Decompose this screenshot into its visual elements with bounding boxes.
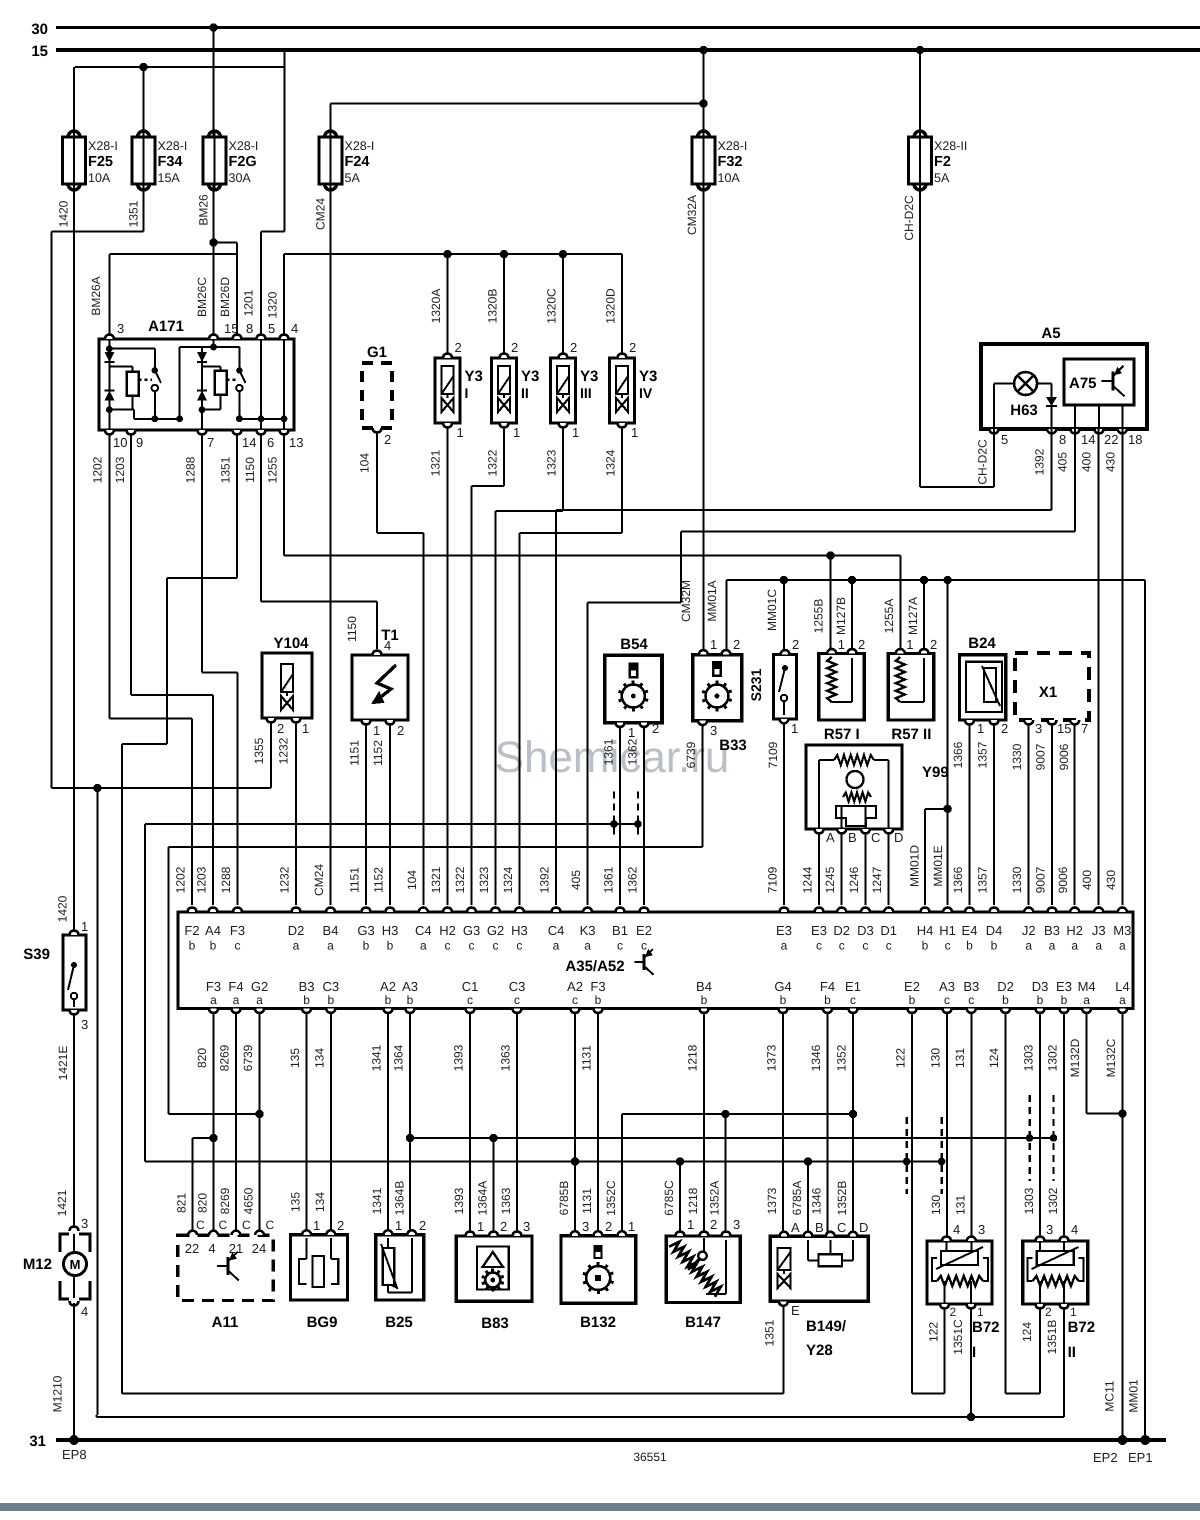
svg-text:B149/: B149/ [806, 1318, 847, 1335]
svg-text:Y99: Y99 [922, 764, 949, 781]
junction bus15/F32 [699, 46, 707, 54]
svg-text:a: a [210, 993, 217, 1007]
svg-text:b: b [387, 939, 394, 953]
svg-text:15: 15 [1057, 721, 1071, 736]
wire label 130 at B72I [929, 1195, 943, 1215]
svg-text:B83: B83 [481, 1315, 509, 1332]
svg-text:C: C [242, 1218, 251, 1232]
svg-text:b: b [1037, 993, 1044, 1007]
junction 1351/shield drop [93, 784, 101, 792]
wire 400 [1098, 429, 1100, 905]
wire M132C to EP2 [1122, 1013, 1124, 1441]
wire label 4650 at A11 [242, 1187, 256, 1214]
wire 1351B [1063, 1305, 1065, 1417]
svg-text:124: 124 [1020, 1322, 1034, 1342]
svg-text:6739: 6739 [241, 1044, 255, 1071]
svg-text:E: E [791, 1303, 800, 1318]
svg-text:I: I [465, 385, 469, 401]
svg-text:4: 4 [291, 321, 298, 336]
svg-text:B33: B33 [719, 737, 747, 754]
svg-text:1420: 1420 [56, 895, 70, 922]
wire 1362 [643, 727, 645, 905]
wire label M127B [834, 597, 848, 635]
svg-text:9006: 9006 [1056, 866, 1070, 893]
svg-text:EP8: EP8 [62, 1447, 87, 1462]
svg-text:C: C [219, 1218, 228, 1232]
svg-text:2: 2 [652, 721, 659, 736]
bus 31 label [29, 1433, 46, 1450]
wire label 1346 at B149 [810, 1187, 824, 1214]
junction BM26 y242.5 [209, 238, 217, 246]
svg-text:24: 24 [252, 1241, 266, 1256]
wire label 124 below B72II [1020, 1322, 1034, 1342]
wire 1232 [295, 722, 297, 905]
svg-text:1: 1 [710, 637, 717, 652]
svg-text:b: b [966, 939, 973, 953]
ECU bottom wire labels [195, 1038, 1118, 1077]
svg-text:1373: 1373 [765, 1187, 779, 1214]
svg-text:M3: M3 [1113, 923, 1131, 938]
svg-text:2: 2 [629, 340, 636, 355]
svg-text:8: 8 [1059, 432, 1066, 447]
svg-text:2: 2 [792, 637, 799, 652]
svg-text:G3: G3 [463, 923, 480, 938]
svg-text:2: 2 [858, 637, 865, 652]
svg-text:1421: 1421 [55, 1189, 69, 1216]
svg-text:B24: B24 [968, 635, 996, 652]
wire label 1150 at T1 [345, 616, 359, 642]
svg-text:131: 131 [953, 1195, 967, 1215]
svg-text:A: A [826, 830, 835, 845]
wire label 1351B below B72II [1045, 1320, 1059, 1355]
wire 134 [330, 1013, 332, 1233]
wire 1288 [202, 434, 238, 905]
svg-text:1303: 1303 [1022, 1187, 1036, 1214]
knock sensor BG9 [291, 1218, 348, 1331]
wire label 1320B [486, 289, 500, 324]
wire 1341 [387, 1013, 389, 1233]
svg-text:7: 7 [207, 435, 214, 450]
wire 821 branch [193, 1138, 214, 1232]
junction bus15/F2 [916, 46, 924, 54]
wire 1351 from A171 pin14 [122, 434, 237, 1394]
svg-text:C1: C1 [462, 979, 479, 994]
junction 1352 [849, 1110, 857, 1118]
fuse F34 15A [132, 130, 187, 191]
junction 1364/1364A [406, 1134, 414, 1142]
svg-text:G4: G4 [774, 979, 791, 994]
svg-text:c: c [945, 939, 951, 953]
svg-text:Y104: Y104 [273, 635, 309, 652]
wire 1202 [109, 434, 192, 905]
wire label 1302 at B72II [1046, 1187, 1060, 1214]
svg-text:M12: M12 [23, 1256, 52, 1273]
wire label 1320 [266, 291, 280, 318]
wire F24/F32 feed y103.5 [331, 102, 704, 104]
wire 1201 elbow [261, 232, 285, 336]
svg-text:D4: D4 [986, 923, 1003, 938]
svg-text:b: b [363, 939, 370, 953]
svg-text:R57 I: R57 I [824, 726, 860, 743]
svg-text:2: 2 [511, 340, 518, 355]
junction M132D/M132C [1118, 1109, 1126, 1117]
wire label 430 at A5 [1104, 452, 1118, 472]
control unit A5 [981, 325, 1147, 447]
svg-text:B132: B132 [580, 1314, 616, 1331]
svg-text:F24: F24 [345, 154, 370, 170]
switch S231 [748, 637, 799, 736]
svg-text:BM26: BM26 [197, 194, 211, 226]
svg-text:2: 2 [930, 637, 937, 652]
shield dash 1302 [1052, 1095, 1054, 1181]
junction F32 riser [699, 99, 707, 107]
svg-text:a: a [327, 939, 334, 953]
wire 1352 bar y1114 [622, 1113, 853, 1115]
wire label 1420 [57, 200, 71, 227]
svg-text:B4: B4 [323, 923, 339, 938]
svg-text:M1210: M1210 [51, 1375, 65, 1412]
svg-text:B3: B3 [1044, 923, 1060, 938]
wire 135 [306, 1013, 308, 1233]
svg-text:1351C: 1351C [951, 1319, 965, 1355]
inertia switch S39 [23, 919, 88, 1032]
junction 1320A [443, 250, 451, 258]
svg-text:1244: 1244 [801, 866, 815, 893]
wire 1373 [782, 1013, 784, 1233]
temperature sensor B25 [376, 1218, 427, 1331]
wire 1131 [597, 1013, 599, 1233]
ECU top wire labels [174, 864, 1118, 896]
wire 104 [377, 432, 423, 905]
temperature sensor B24 [960, 635, 1009, 736]
svg-text:b: b [824, 993, 831, 1007]
svg-text:E3: E3 [776, 923, 792, 938]
svg-text:135: 135 [288, 1048, 302, 1068]
resistor R57 II [888, 637, 937, 743]
svg-text:821: 821 [175, 1193, 189, 1213]
svg-text:1246: 1246 [847, 866, 861, 893]
svg-text:F2: F2 [184, 923, 199, 938]
svg-text:c: c [516, 939, 522, 953]
svg-text:E1: E1 [845, 979, 861, 994]
wire label 1150 at A171 [243, 457, 257, 483]
svg-text:2: 2 [1045, 1305, 1052, 1319]
svg-text:22: 22 [1104, 432, 1118, 447]
svg-text:5A: 5A [934, 171, 950, 185]
wire label 1363 at B83 [499, 1187, 513, 1214]
svg-text:1322: 1322 [486, 449, 500, 476]
wire label 1361 at B54 [602, 738, 616, 765]
wire 1330 [1028, 724, 1030, 905]
svg-text:1363: 1363 [499, 1044, 513, 1071]
svg-text:1323: 1323 [545, 449, 559, 476]
wire label 6785C at B147 [662, 1180, 676, 1216]
svg-text:1364: 1364 [392, 1044, 406, 1071]
svg-text:B: B [815, 1220, 824, 1235]
junction 6739/G2a [255, 1110, 263, 1118]
svg-text:1218: 1218 [686, 1044, 700, 1071]
svg-text:D2: D2 [833, 923, 850, 938]
wire label CH-D2C at A5 [976, 439, 990, 485]
wire 1393 [469, 1013, 471, 1233]
svg-text:C4: C4 [548, 923, 565, 938]
svg-text:1: 1 [838, 637, 845, 652]
junction shield/6785B [571, 1157, 579, 1165]
wire label 1320C [545, 288, 559, 324]
svg-text:9006: 9006 [1057, 743, 1071, 770]
svg-text:B147: B147 [685, 1314, 721, 1331]
wire MM01A drop [726, 580, 728, 650]
svg-text:104: 104 [358, 453, 372, 473]
svg-text:3: 3 [1046, 1222, 1053, 1237]
watermark Shemicar.ru [495, 733, 730, 782]
svg-text:3: 3 [117, 321, 124, 336]
svg-text:c: c [850, 993, 856, 1007]
svg-text:1: 1 [302, 721, 309, 736]
svg-text:b: b [189, 939, 196, 953]
wire label 134 at BG9 [313, 1192, 327, 1212]
svg-text:Y3: Y3 [465, 368, 483, 385]
svg-text:2: 2 [733, 637, 740, 652]
wire label 1322 at Y3 [486, 449, 500, 476]
wire 1352 ECU to B149 pinD [852, 1013, 854, 1233]
wire BM26 F2G to A171 pin15 [212, 184, 214, 335]
wire 1246 [864, 833, 866, 905]
svg-text:1421E: 1421E [56, 1046, 70, 1081]
svg-text:14: 14 [242, 435, 256, 450]
svg-text:BM26A: BM26A [89, 276, 103, 315]
svg-text:a: a [256, 993, 263, 1007]
wire 1218 [703, 1013, 705, 1233]
injector Y3 II [492, 340, 540, 440]
svg-text:EP2: EP2 [1093, 1450, 1118, 1465]
svg-text:1320: 1320 [266, 291, 280, 318]
wire label CM32M [679, 580, 693, 622]
svg-text:G2: G2 [251, 979, 268, 994]
svg-text:130: 130 [929, 1048, 943, 1068]
svg-text:30: 30 [31, 21, 48, 38]
shield dash 1303 [1028, 1095, 1030, 1181]
wire label BM26D [218, 277, 232, 317]
wire label 1303 at B72II [1022, 1187, 1036, 1214]
wire label 1364B at B25 [393, 1181, 407, 1216]
svg-text:1320A: 1320A [429, 289, 443, 324]
svg-text:1218: 1218 [686, 1187, 700, 1214]
wire BM26A/BM26D bar y254.2 [109, 253, 237, 255]
svg-text:1351: 1351 [762, 1319, 776, 1346]
wire 405 [588, 429, 1075, 905]
svg-text:2: 2 [950, 1305, 957, 1319]
svg-text:F34: F34 [158, 154, 183, 170]
ground EP2 [1093, 1435, 1128, 1465]
wire label MM01D [908, 845, 922, 887]
bus 15 label [31, 43, 48, 60]
svg-text:II: II [1068, 1344, 1076, 1361]
svg-text:G3: G3 [357, 923, 374, 938]
svg-text:b: b [210, 939, 217, 953]
wire CM32A F32 to B33 [702, 188, 704, 650]
svg-text:B54: B54 [620, 636, 648, 653]
svg-text:1320C: 1320C [545, 288, 559, 324]
svg-text:1: 1 [687, 1217, 694, 1232]
wire 6785C drop [679, 1162, 681, 1233]
junction F34 feed [139, 63, 147, 71]
wire label 1320A [429, 289, 443, 324]
svg-text:1351B: 1351B [1045, 1320, 1059, 1355]
svg-text:X28-I: X28-I [229, 139, 259, 153]
svg-text:1324: 1324 [501, 866, 515, 893]
wire label 1351 at F34 [127, 200, 141, 227]
svg-text:F25: F25 [88, 154, 113, 170]
svg-text:6: 6 [267, 435, 274, 450]
svg-text:1361: 1361 [602, 866, 616, 893]
wire F2 riser [919, 50, 921, 137]
svg-text:CM24: CM24 [312, 864, 326, 896]
svg-text:5A: 5A [345, 171, 361, 185]
svg-text:15: 15 [31, 43, 48, 60]
wire 6739 [169, 725, 703, 1114]
wire label BM26C [195, 277, 209, 317]
svg-text:D2: D2 [288, 923, 305, 938]
svg-text:6785C: 6785C [662, 1180, 676, 1216]
lambda sensor B72 II [1023, 1222, 1096, 1361]
svg-text:1364A: 1364A [476, 1181, 490, 1216]
svg-text:H3: H3 [382, 923, 399, 938]
svg-text:22: 22 [185, 1241, 199, 1256]
svg-text:CH-D2C: CH-D2C [976, 439, 990, 485]
bus 31 wire [56, 1438, 1166, 1442]
svg-text:a: a [420, 939, 427, 953]
svg-text:F4: F4 [820, 979, 835, 994]
wire label 1330 at X1 [1010, 743, 1024, 770]
svg-text:G2: G2 [487, 923, 504, 938]
svg-text:1303: 1303 [1022, 1044, 1036, 1071]
svg-text:1321: 1321 [429, 866, 443, 893]
wire label CM24 at F24 [314, 198, 328, 230]
wire 1244 [818, 833, 820, 905]
wire label BM26 [197, 194, 211, 226]
svg-text:1366: 1366 [951, 866, 965, 893]
wire 9006 [1074, 724, 1076, 905]
svg-text:2: 2 [419, 1218, 426, 1233]
wire 1323 [496, 427, 564, 905]
wire 9007 [1051, 724, 1053, 905]
svg-text:a: a [1119, 993, 1126, 1007]
svg-text:1393: 1393 [452, 1187, 466, 1214]
shield bar y824 [145, 823, 638, 825]
wire 1421E [73, 1014, 75, 1227]
svg-text:1245: 1245 [823, 866, 837, 893]
svg-text:B25: B25 [385, 1314, 413, 1331]
wire 1255 [284, 434, 901, 650]
junction MM01C [780, 576, 788, 584]
svg-text:1151: 1151 [348, 867, 362, 893]
wire 1322 [472, 427, 505, 905]
wire label M127A [906, 597, 920, 635]
svg-text:2: 2 [384, 432, 391, 447]
wire 1361 [619, 727, 621, 905]
svg-text:36551: 36551 [633, 1450, 667, 1464]
junction M127A [920, 576, 928, 584]
svg-text:K3: K3 [580, 923, 596, 938]
svg-text:820: 820 [196, 1193, 210, 1213]
svg-text:F3: F3 [590, 979, 605, 994]
svg-text:M127B: M127B [834, 597, 848, 635]
wire 1150 [261, 434, 377, 649]
injector Y3 III [551, 340, 599, 440]
svg-text:1152: 1152 [371, 740, 385, 766]
idle actuator Y99 [806, 745, 949, 845]
junction 1320B [500, 250, 508, 258]
wire label 1364A at B83 [476, 1181, 490, 1216]
svg-text:1352A: 1352A [707, 1181, 721, 1216]
wire F32 riser [702, 50, 704, 137]
wire MM01E drop [947, 580, 949, 905]
connector X1 [1015, 653, 1089, 736]
svg-text:H3: H3 [511, 923, 528, 938]
svg-text:1: 1 [628, 725, 635, 740]
wire 130 [946, 1013, 948, 1237]
wire F2G riser [212, 28, 214, 138]
wire label 1362 at B54 [626, 738, 640, 765]
svg-text:1: 1 [81, 919, 88, 934]
svg-text:2: 2 [397, 723, 404, 738]
wire 1357 [993, 724, 995, 905]
svg-text:H1: H1 [939, 923, 956, 938]
wire 1364A branch [410, 1137, 494, 1139]
svg-text:F32: F32 [718, 154, 743, 170]
wire 1351 drop x97.4 [96, 788, 98, 1415]
wire label 1355 [252, 737, 266, 764]
wire label 1321 at Y3 [429, 449, 443, 476]
svg-text:1362: 1362 [626, 866, 640, 893]
svg-text:B72: B72 [972, 1319, 1000, 1336]
wire MM01C drop [783, 580, 785, 650]
svg-text:c: c [469, 939, 475, 953]
svg-text:E3: E3 [1056, 979, 1072, 994]
wire 124 [1006, 1013, 1041, 1394]
svg-text:c: c [493, 939, 499, 953]
svg-text:E2: E2 [636, 923, 652, 938]
svg-text:H2: H2 [1066, 923, 1083, 938]
svg-text:X1: X1 [1039, 684, 1057, 701]
svg-text:c: c [572, 993, 578, 1007]
wire 1245 [841, 833, 843, 905]
wire shield bar y1138 right [494, 1137, 1054, 1139]
wire label 1357 at B24 [976, 741, 990, 768]
wire M127A drop [923, 580, 925, 650]
wire 1320C drop [562, 254, 564, 355]
svg-text:MM01E: MM01E [931, 845, 945, 886]
svg-text:X28-I: X28-I [718, 139, 748, 153]
svg-text:b: b [303, 993, 310, 1007]
svg-text:b: b [1002, 993, 1009, 1007]
wire F24 riser [329, 104, 331, 138]
svg-text:1: 1 [791, 721, 798, 736]
svg-text:8269: 8269 [218, 1044, 232, 1071]
wire label 1420 at S39 [56, 895, 70, 922]
svg-text:a: a [1119, 939, 1126, 953]
wire label 1202 [91, 456, 105, 483]
junction bus30/F2G [209, 23, 217, 31]
wire label 1352B at B149 [835, 1181, 849, 1216]
svg-text:CM24: CM24 [314, 198, 328, 230]
wire label 6739 at B33 [684, 741, 698, 768]
wire 1255B drop to R57 I [830, 556, 832, 651]
svg-text:13: 13 [289, 435, 303, 450]
wire shield bar y1161.5 [145, 1161, 942, 1163]
svg-text:7: 7 [1081, 721, 1088, 736]
